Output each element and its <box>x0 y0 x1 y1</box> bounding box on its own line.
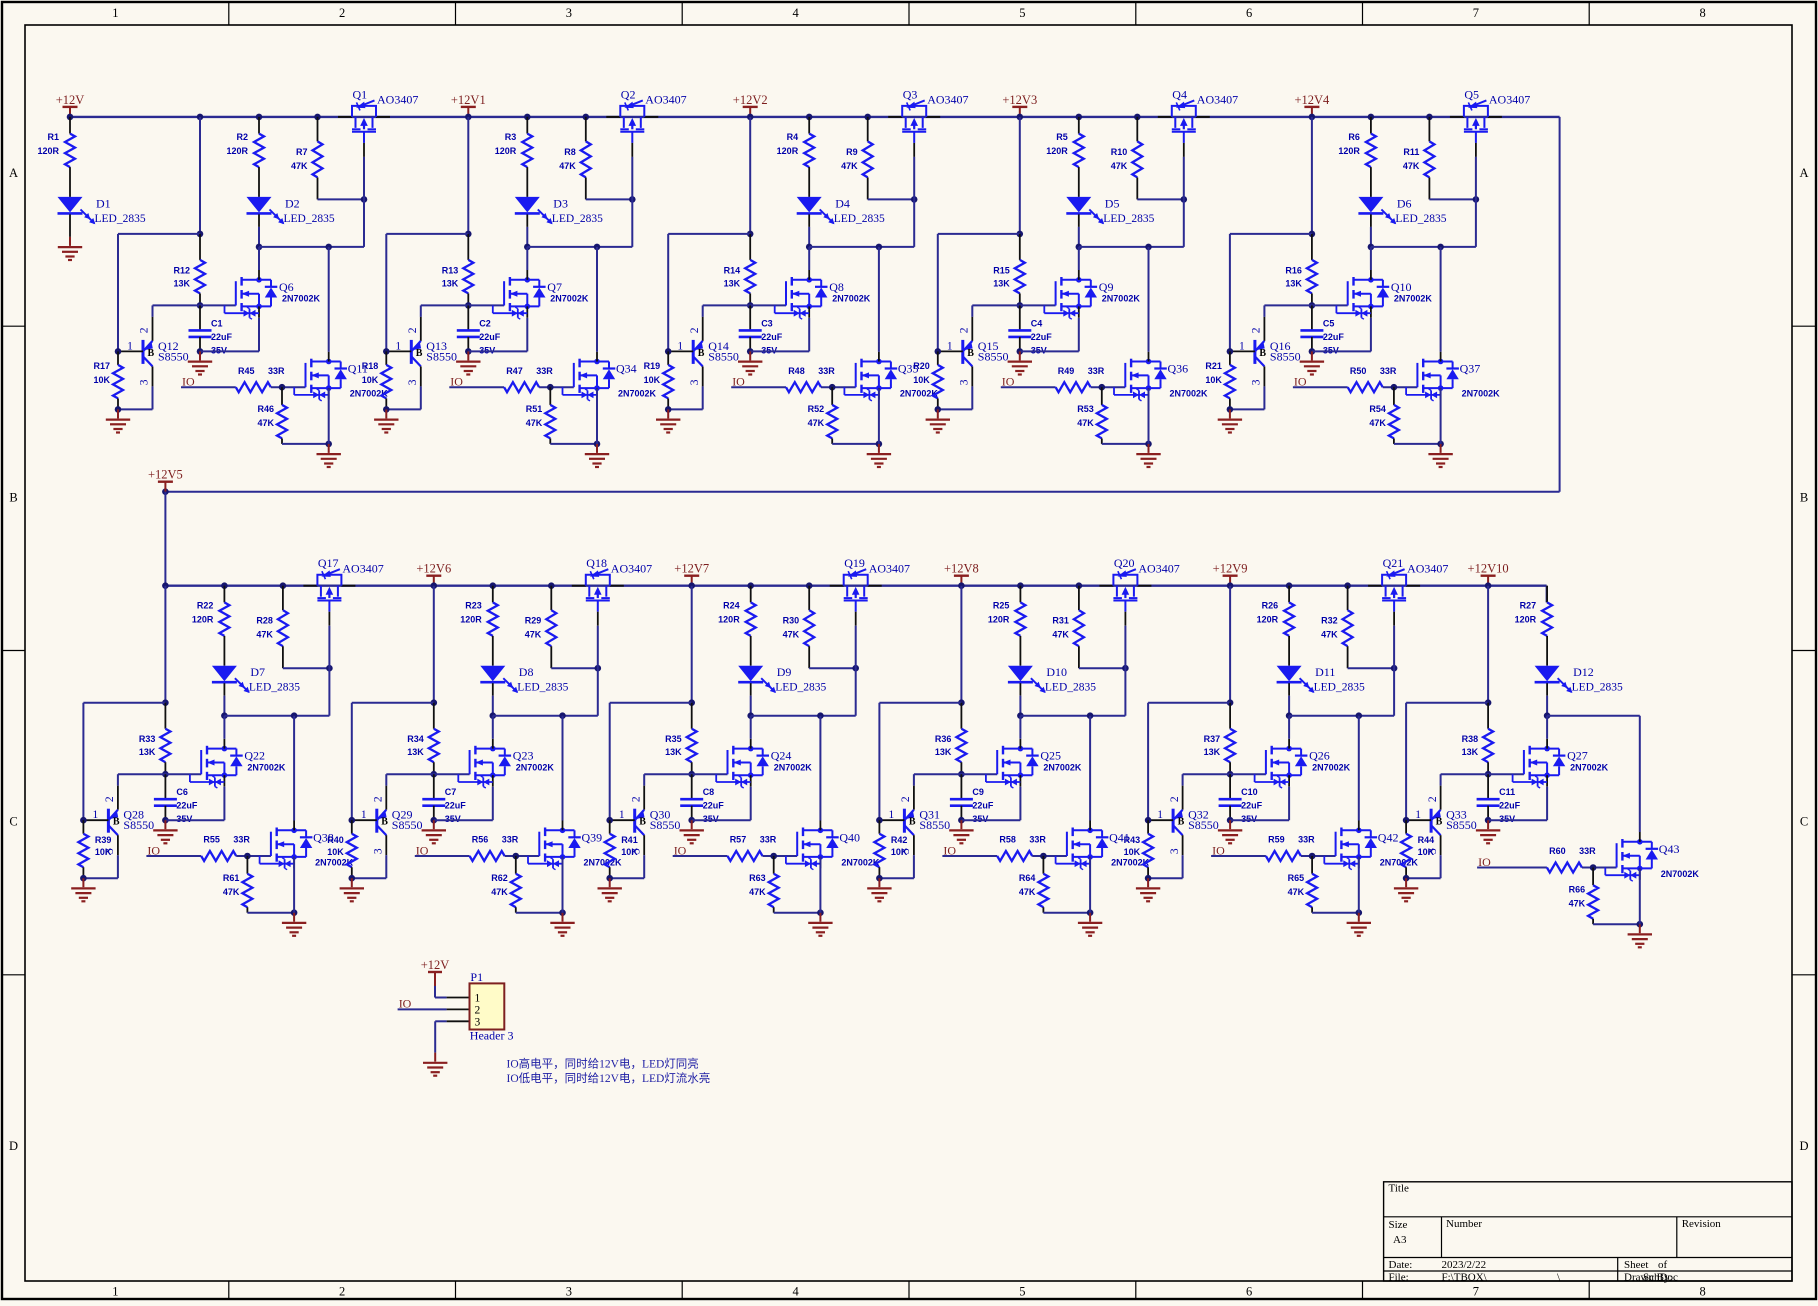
svg-text:A3: A3 <box>1393 1234 1407 1246</box>
svg-text:2023/2/22: 2023/2/22 <box>1442 1259 1487 1271</box>
svg-text:S8550: S8550 <box>1270 349 1301 363</box>
svg-text:R37: R37 <box>1204 734 1221 744</box>
svg-text:R18: R18 <box>362 361 379 371</box>
svg-text:2: 2 <box>959 327 971 333</box>
svg-text:47K: 47K <box>1321 630 1338 640</box>
svg-text:33R: 33R <box>818 366 835 376</box>
svg-text:R66: R66 <box>1569 885 1586 895</box>
svg-text:47K: 47K <box>749 887 766 897</box>
svg-text:1: 1 <box>127 340 133 352</box>
svg-text:R2: R2 <box>236 132 248 142</box>
svg-text:3: 3 <box>959 379 971 385</box>
svg-text:2: 2 <box>1169 796 1181 802</box>
svg-text:D12: D12 <box>1573 665 1594 679</box>
svg-text:13K: 13K <box>1285 278 1302 288</box>
svg-text:R43: R43 <box>1124 835 1141 845</box>
svg-text:120R: 120R <box>988 615 1010 625</box>
svg-text:R24: R24 <box>723 601 740 611</box>
svg-text:10K: 10K <box>621 847 638 857</box>
svg-text:R22: R22 <box>197 601 214 611</box>
svg-text:47K: 47K <box>1569 899 1586 909</box>
svg-text:AO3407: AO3407 <box>342 562 383 576</box>
svg-text:2N7002K: 2N7002K <box>900 389 939 399</box>
svg-text:LED_2835: LED_2835 <box>1395 213 1446 225</box>
svg-text:Q23: Q23 <box>513 749 534 763</box>
svg-text:R38: R38 <box>1462 734 1479 744</box>
svg-text:R60: R60 <box>1549 846 1566 856</box>
svg-text:Q34: Q34 <box>616 362 637 376</box>
svg-text:R56: R56 <box>472 835 489 845</box>
svg-text:R23: R23 <box>465 601 482 611</box>
svg-text:R41: R41 <box>621 835 638 845</box>
svg-text:2: 2 <box>689 327 701 333</box>
svg-text:1: 1 <box>112 1285 118 1299</box>
svg-text:+12V3: +12V3 <box>1002 93 1037 107</box>
svg-text:R10: R10 <box>1111 147 1128 157</box>
svg-text:Q26: Q26 <box>1309 749 1330 763</box>
svg-text:LED_2835: LED_2835 <box>249 682 300 694</box>
svg-text:R65: R65 <box>1288 873 1305 883</box>
svg-text:Number: Number <box>1446 1218 1482 1230</box>
svg-text:C8: C8 <box>703 787 715 797</box>
svg-text:120R: 120R <box>495 146 517 156</box>
svg-text:120R: 120R <box>1046 146 1068 156</box>
svg-text:R58: R58 <box>999 835 1016 845</box>
svg-text:120R: 120R <box>192 615 214 625</box>
svg-text:4: 4 <box>792 1285 799 1299</box>
svg-text:2N7002K: 2N7002K <box>1462 389 1501 399</box>
svg-text:10K: 10K <box>1418 847 1435 857</box>
svg-text:2N7002K: 2N7002K <box>516 762 555 772</box>
svg-text:AO3407: AO3407 <box>377 93 418 107</box>
svg-text:120R: 120R <box>777 146 799 156</box>
svg-text:1: 1 <box>619 809 625 821</box>
svg-text:47K: 47K <box>256 630 273 640</box>
svg-text:+12V6: +12V6 <box>416 562 451 576</box>
svg-text:+12V8: +12V8 <box>944 562 979 576</box>
svg-text:2N7002K: 2N7002K <box>247 762 286 772</box>
svg-text:R12: R12 <box>173 265 190 275</box>
svg-text:R62: R62 <box>491 873 508 883</box>
svg-text:B: B <box>1178 817 1185 828</box>
svg-text:Q1: Q1 <box>353 87 368 101</box>
svg-text:10K: 10K <box>1205 375 1222 385</box>
svg-text:22uF: 22uF <box>972 801 994 811</box>
svg-text:LED_2835: LED_2835 <box>834 213 885 225</box>
svg-text:10K: 10K <box>644 375 661 385</box>
svg-text:47K: 47K <box>841 161 858 171</box>
svg-text:B: B <box>698 348 705 359</box>
svg-text:3: 3 <box>475 1016 481 1028</box>
svg-text:C5: C5 <box>1323 318 1335 328</box>
svg-text:S8550: S8550 <box>650 818 681 832</box>
svg-text:Q3: Q3 <box>903 87 918 101</box>
svg-text:2: 2 <box>1427 796 1439 802</box>
svg-text:8: 8 <box>1699 6 1705 20</box>
svg-text:120R: 120R <box>1515 615 1537 625</box>
svg-text:LED_2835: LED_2835 <box>1045 682 1096 694</box>
svg-text:Revision: Revision <box>1682 1218 1722 1230</box>
svg-text:120R: 120R <box>460 615 482 625</box>
svg-text:2N7002K: 2N7002K <box>841 857 880 867</box>
svg-text:S8550: S8550 <box>1446 818 1477 832</box>
svg-text:120R: 120R <box>1338 146 1360 156</box>
svg-text:A: A <box>9 166 18 180</box>
svg-text:Q19: Q19 <box>844 556 865 570</box>
svg-text:+12V: +12V <box>56 93 85 107</box>
svg-text:10K: 10K <box>362 375 379 385</box>
svg-text:D2: D2 <box>285 196 300 210</box>
svg-text:47K: 47K <box>808 418 825 428</box>
svg-text:1: 1 <box>112 6 118 20</box>
svg-text:C9: C9 <box>972 787 984 797</box>
svg-text:2N7002K: 2N7002K <box>282 294 321 304</box>
svg-text:D1: D1 <box>96 196 111 210</box>
svg-text:Date:: Date: <box>1389 1259 1413 1271</box>
svg-text:Q21: Q21 <box>1383 556 1404 570</box>
svg-text:22uF: 22uF <box>1031 332 1053 342</box>
svg-text:C10: C10 <box>1241 787 1258 797</box>
svg-text:LED_2835: LED_2835 <box>284 213 335 225</box>
svg-text:47K: 47K <box>491 887 508 897</box>
svg-text:R16: R16 <box>1285 265 1302 275</box>
svg-text:47K: 47K <box>223 887 240 897</box>
svg-text:LED_2835: LED_2835 <box>1314 682 1365 694</box>
svg-text:47K: 47K <box>1288 887 1305 897</box>
svg-text:Q4: Q4 <box>1172 87 1187 101</box>
svg-text:R7: R7 <box>296 147 308 157</box>
svg-text:7: 7 <box>1473 1285 1479 1299</box>
svg-text:22uF: 22uF <box>211 332 233 342</box>
svg-text:3: 3 <box>373 848 385 854</box>
svg-text:Header 3: Header 3 <box>470 1028 514 1042</box>
svg-text:D8: D8 <box>519 665 534 679</box>
svg-text:D: D <box>1799 1139 1808 1153</box>
svg-text:8: 8 <box>1699 1285 1705 1299</box>
svg-text:R50: R50 <box>1350 366 1367 376</box>
svg-text:R20: R20 <box>913 361 930 371</box>
svg-text:2: 2 <box>104 796 116 802</box>
svg-text:B: B <box>9 490 17 504</box>
svg-text:Q2: Q2 <box>621 87 636 101</box>
svg-text:S8550: S8550 <box>123 818 154 832</box>
svg-text:22uF: 22uF <box>479 332 501 342</box>
svg-text:Q42: Q42 <box>1378 830 1399 844</box>
svg-text:R53: R53 <box>1077 404 1094 414</box>
svg-text:10K: 10K <box>1124 847 1141 857</box>
svg-text:D5: D5 <box>1105 196 1120 210</box>
svg-text:47K: 47K <box>1111 161 1128 171</box>
svg-text:47K: 47K <box>783 630 800 640</box>
svg-text:1: 1 <box>361 809 367 821</box>
svg-text:C2: C2 <box>479 318 491 328</box>
svg-text:5: 5 <box>1019 1285 1025 1299</box>
svg-text:R63: R63 <box>749 873 766 883</box>
svg-text:AO3407: AO3407 <box>927 93 968 107</box>
svg-text:3: 3 <box>1251 379 1263 385</box>
svg-text:R46: R46 <box>257 404 274 414</box>
svg-text:2N7002K: 2N7002K <box>1394 294 1433 304</box>
svg-text:13K: 13K <box>173 278 190 288</box>
svg-text:2N7002K: 2N7002K <box>1170 389 1209 399</box>
svg-text:1: 1 <box>475 993 481 1005</box>
svg-text:2N7002K: 2N7002K <box>1312 762 1351 772</box>
svg-text:File:: File: <box>1389 1271 1409 1283</box>
svg-text:+12V2: +12V2 <box>733 93 768 107</box>
svg-text:1: 1 <box>395 340 401 352</box>
svg-text:33R: 33R <box>233 835 250 845</box>
svg-text:33R: 33R <box>1088 366 1105 376</box>
svg-text:2: 2 <box>339 1285 345 1299</box>
svg-text:2N7002K: 2N7002K <box>832 294 871 304</box>
svg-text:13K: 13K <box>993 278 1010 288</box>
svg-text:R64: R64 <box>1019 873 1036 883</box>
svg-text:D3: D3 <box>553 196 568 210</box>
svg-text:AO3407: AO3407 <box>611 562 652 576</box>
svg-text:B: B <box>113 817 120 828</box>
svg-text:R48: R48 <box>788 366 805 376</box>
svg-text:1: 1 <box>93 809 99 821</box>
svg-text:LED_2835: LED_2835 <box>552 213 603 225</box>
svg-text:2: 2 <box>1251 327 1263 333</box>
svg-text:33R: 33R <box>502 835 519 845</box>
svg-text:22uF: 22uF <box>761 332 783 342</box>
svg-text:2N7002K: 2N7002K <box>1102 294 1141 304</box>
svg-text:2N7002K: 2N7002K <box>550 294 589 304</box>
svg-text:AO3407: AO3407 <box>1197 93 1238 107</box>
svg-text:13K: 13K <box>935 747 952 757</box>
svg-text:13K: 13K <box>1462 747 1479 757</box>
svg-text:LED_2835: LED_2835 <box>517 682 568 694</box>
svg-text:120R: 120R <box>37 146 59 156</box>
svg-text:D6: D6 <box>1397 196 1412 210</box>
svg-text:R36: R36 <box>935 734 952 744</box>
svg-text:R42: R42 <box>891 835 908 845</box>
svg-text:R49: R49 <box>1058 366 1075 376</box>
svg-text:5: 5 <box>1019 6 1025 20</box>
svg-text:SchDoc: SchDoc <box>1643 1271 1678 1283</box>
svg-text:33R: 33R <box>760 835 777 845</box>
svg-text:Title: Title <box>1389 1183 1410 1195</box>
svg-text:S8550: S8550 <box>392 818 423 832</box>
svg-text:R26: R26 <box>1262 601 1279 611</box>
svg-text:D10: D10 <box>1046 665 1067 679</box>
svg-text:Q39: Q39 <box>582 830 603 844</box>
svg-text:2N7002K: 2N7002K <box>774 762 813 772</box>
svg-text:AO3407: AO3407 <box>1489 93 1530 107</box>
svg-text:R9: R9 <box>846 147 858 157</box>
svg-text:Q8: Q8 <box>829 280 844 294</box>
svg-text:Q27: Q27 <box>1567 749 1588 763</box>
svg-text:IO高电平，同时给12V电，LED灯同亮: IO高电平，同时给12V电，LED灯同亮 <box>507 1057 699 1071</box>
svg-text:+12V10: +12V10 <box>1468 562 1509 576</box>
svg-text:B: B <box>416 348 423 359</box>
svg-text:D9: D9 <box>777 665 792 679</box>
svg-text:Q6: Q6 <box>279 280 294 294</box>
svg-text:Q10: Q10 <box>1391 280 1412 294</box>
svg-text:LED_2835: LED_2835 <box>1572 682 1623 694</box>
svg-text:R1: R1 <box>47 132 59 142</box>
svg-text:Q40: Q40 <box>839 830 860 844</box>
svg-text:R6: R6 <box>1348 132 1360 142</box>
svg-text:S8550: S8550 <box>1188 818 1219 832</box>
svg-text:R25: R25 <box>993 601 1010 611</box>
svg-text:C: C <box>9 815 17 829</box>
svg-text:of: of <box>1658 1259 1668 1271</box>
svg-text:S8550: S8550 <box>978 349 1009 363</box>
svg-text:Sheet: Sheet <box>1624 1259 1648 1271</box>
svg-text:IO低电平，同时给12V电，LED灯流水亮: IO低电平，同时给12V电，LED灯流水亮 <box>507 1071 711 1085</box>
svg-text:+12V: +12V <box>421 958 450 972</box>
svg-text:22uF: 22uF <box>1323 332 1345 342</box>
svg-text:C6: C6 <box>176 787 188 797</box>
svg-text:R47: R47 <box>506 366 523 376</box>
svg-text:Q20: Q20 <box>1114 556 1135 570</box>
svg-text:B: B <box>967 348 974 359</box>
svg-text:6: 6 <box>1246 6 1252 20</box>
svg-text:B: B <box>1259 348 1266 359</box>
svg-text:D4: D4 <box>835 196 850 210</box>
svg-text:22uF: 22uF <box>1499 801 1521 811</box>
svg-text:Q17: Q17 <box>318 556 339 570</box>
svg-text:R35: R35 <box>665 734 682 744</box>
svg-text:2: 2 <box>407 327 419 333</box>
svg-text:R59: R59 <box>1268 835 1285 845</box>
svg-text:1: 1 <box>677 340 683 352</box>
svg-text:B: B <box>909 817 916 828</box>
svg-text:33R: 33R <box>1298 835 1315 845</box>
svg-text:D11: D11 <box>1315 665 1335 679</box>
svg-text:2N7002K: 2N7002K <box>1043 762 1082 772</box>
svg-text:R8: R8 <box>564 147 576 157</box>
svg-text:22uF: 22uF <box>176 801 198 811</box>
svg-text:D7: D7 <box>250 665 265 679</box>
svg-text:3: 3 <box>1169 848 1181 854</box>
svg-text:S8550: S8550 <box>426 349 457 363</box>
svg-text:B: B <box>1436 817 1443 828</box>
svg-text:10K: 10K <box>913 375 930 385</box>
svg-text:R14: R14 <box>724 265 741 275</box>
svg-text:10K: 10K <box>891 847 908 857</box>
svg-text:+12V9: +12V9 <box>1213 562 1248 576</box>
svg-text:Q7: Q7 <box>547 280 562 294</box>
svg-text:1: 1 <box>1157 809 1163 821</box>
svg-text:R15: R15 <box>993 265 1010 275</box>
svg-text:A: A <box>1799 166 1808 180</box>
svg-text:C7: C7 <box>445 787 457 797</box>
svg-text:S8550: S8550 <box>919 818 950 832</box>
svg-text:+12V5: +12V5 <box>148 468 183 482</box>
svg-text:13K: 13K <box>724 278 741 288</box>
svg-text:Q24: Q24 <box>771 749 792 763</box>
svg-text:3: 3 <box>139 379 151 385</box>
svg-text:R31: R31 <box>1052 616 1069 626</box>
svg-text:3: 3 <box>407 379 419 385</box>
svg-text:Q43: Q43 <box>1659 842 1680 856</box>
svg-text:120R: 120R <box>226 146 248 156</box>
svg-text:120R: 120R <box>718 615 740 625</box>
svg-text:13K: 13K <box>1204 747 1221 757</box>
svg-text:C: C <box>1800 815 1808 829</box>
svg-text:2: 2 <box>630 796 642 802</box>
svg-text:R54: R54 <box>1369 404 1386 414</box>
svg-text:R34: R34 <box>407 734 424 744</box>
svg-text:10K: 10K <box>95 847 112 857</box>
svg-text:Q37: Q37 <box>1460 362 1481 376</box>
svg-text:+12V1: +12V1 <box>451 93 486 107</box>
svg-text:13K: 13K <box>407 747 424 757</box>
svg-text:13K: 13K <box>139 747 156 757</box>
svg-text:B: B <box>148 348 155 359</box>
svg-text:1: 1 <box>947 340 953 352</box>
svg-text:47K: 47K <box>1052 630 1069 640</box>
svg-text:3: 3 <box>566 1285 572 1299</box>
svg-text:47K: 47K <box>257 418 274 428</box>
svg-text:R45: R45 <box>238 366 255 376</box>
svg-text:R11: R11 <box>1403 147 1419 157</box>
svg-text:R57: R57 <box>730 835 747 845</box>
svg-text:33R: 33R <box>536 366 553 376</box>
svg-text:R13: R13 <box>442 265 459 275</box>
svg-text:13K: 13K <box>442 278 459 288</box>
svg-text:Q18: Q18 <box>586 556 607 570</box>
svg-text:R4: R4 <box>787 132 799 142</box>
svg-text:Q5: Q5 <box>1464 87 1479 101</box>
svg-text:S8550: S8550 <box>708 349 739 363</box>
svg-text:47K: 47K <box>1077 418 1094 428</box>
svg-text:2: 2 <box>373 796 385 802</box>
svg-text:R29: R29 <box>525 616 542 626</box>
svg-text:47K: 47K <box>1403 161 1420 171</box>
svg-text:R30: R30 <box>783 616 800 626</box>
svg-text:33R: 33R <box>1579 846 1596 856</box>
svg-text:47K: 47K <box>1019 887 1036 897</box>
svg-text:AO3407: AO3407 <box>1407 562 1448 576</box>
svg-text:Q25: Q25 <box>1040 749 1061 763</box>
svg-text:Size: Size <box>1389 1219 1408 1231</box>
svg-text:R55: R55 <box>203 835 220 845</box>
svg-text:R21: R21 <box>1205 361 1222 371</box>
svg-text:2N7002K: 2N7002K <box>618 389 657 399</box>
svg-text:D: D <box>9 1139 18 1153</box>
svg-text:1: 1 <box>1239 340 1245 352</box>
svg-text:2: 2 <box>139 327 151 333</box>
svg-text:+12V4: +12V4 <box>1294 93 1330 107</box>
svg-text:2: 2 <box>339 6 345 20</box>
svg-text:3: 3 <box>689 379 701 385</box>
svg-text:R39: R39 <box>95 835 112 845</box>
svg-text:R44: R44 <box>1418 835 1435 845</box>
svg-text:B: B <box>381 817 388 828</box>
svg-text:R32: R32 <box>1321 616 1338 626</box>
svg-text:22uF: 22uF <box>1241 801 1263 811</box>
svg-text:B: B <box>639 817 646 828</box>
svg-text:10K: 10K <box>327 847 344 857</box>
svg-text:R19: R19 <box>644 361 661 371</box>
svg-text:P1: P1 <box>470 970 483 984</box>
svg-text:R52: R52 <box>808 404 825 414</box>
svg-text:47K: 47K <box>526 418 543 428</box>
svg-text:AO3407: AO3407 <box>869 562 910 576</box>
svg-text:Q36: Q36 <box>1168 362 1189 376</box>
svg-text:R40: R40 <box>327 835 344 845</box>
svg-text:R3: R3 <box>505 132 517 142</box>
svg-text:33R: 33R <box>1029 835 1046 845</box>
svg-text:C11: C11 <box>1499 787 1515 797</box>
svg-text:R5: R5 <box>1056 132 1068 142</box>
svg-text:Q22: Q22 <box>244 749 265 763</box>
svg-text:47K: 47K <box>559 161 576 171</box>
